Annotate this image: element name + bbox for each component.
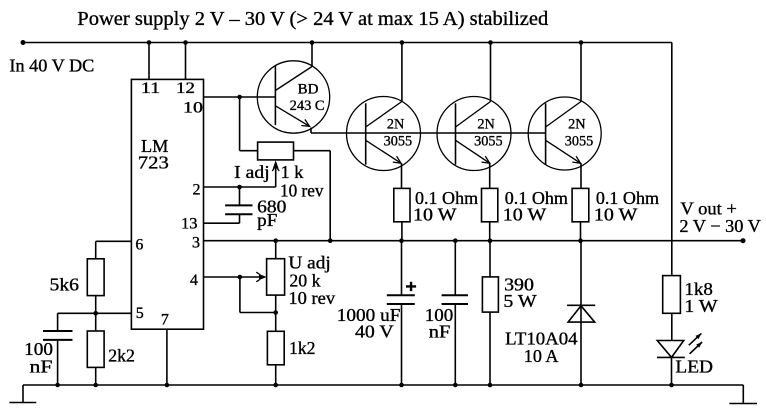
svg-text:nF: nF — [30, 357, 53, 377]
svg-text:10 W: 10 W — [503, 204, 547, 224]
svg-text:2: 2 — [193, 182, 201, 199]
svg-text:5k6: 5k6 — [50, 275, 80, 295]
svg-text:1 W: 1 W — [684, 296, 717, 316]
svg-text:7: 7 — [161, 311, 169, 328]
svg-text:10 W: 10 W — [594, 204, 638, 224]
svg-text:10 W: 10 W — [413, 204, 457, 224]
svg-text:3: 3 — [192, 234, 200, 251]
svg-text:Power supply 2 V – 30 V (> 24: Power supply 2 V – 30 V (> 24 V at max 1… — [77, 8, 548, 30]
svg-text:nF: nF — [429, 321, 451, 341]
svg-text:13: 13 — [181, 215, 198, 232]
svg-text:12: 12 — [176, 80, 195, 97]
svg-text:2k2: 2k2 — [108, 345, 135, 365]
svg-text:U adj: U adj — [288, 252, 330, 272]
svg-text:40 V: 40 V — [355, 321, 394, 341]
svg-text:6: 6 — [135, 237, 143, 254]
svg-text:4: 4 — [190, 272, 198, 289]
svg-text:5 W: 5 W — [503, 291, 536, 311]
svg-text:pF: pF — [257, 210, 277, 230]
svg-text:5: 5 — [136, 305, 144, 322]
svg-text:243 C: 243 C — [290, 98, 325, 114]
svg-text:2N: 2N — [477, 116, 495, 132]
svg-text:11: 11 — [141, 80, 161, 97]
svg-text:BD: BD — [298, 81, 319, 97]
svg-text:1 k: 1 k — [281, 162, 304, 182]
svg-text:10 A: 10 A — [524, 346, 559, 366]
svg-text:10: 10 — [183, 99, 203, 116]
svg-text:3055: 3055 — [384, 134, 413, 150]
svg-text:3055: 3055 — [474, 134, 503, 150]
svg-text:2N: 2N — [387, 116, 405, 132]
svg-text:10 rev: 10 rev — [280, 180, 324, 200]
svg-text:2N: 2N — [568, 116, 586, 132]
svg-text:3055: 3055 — [565, 134, 594, 150]
svg-text:2 V − 30 V: 2 V − 30 V — [679, 216, 760, 236]
svg-text:10 rev: 10 rev — [288, 288, 335, 308]
svg-text:723: 723 — [138, 152, 169, 172]
svg-text:I adj: I adj — [234, 162, 270, 182]
svg-text:LED: LED — [675, 357, 713, 377]
svg-text:In 40 V DC: In 40 V DC — [9, 56, 94, 76]
svg-text:1k2: 1k2 — [289, 338, 316, 358]
